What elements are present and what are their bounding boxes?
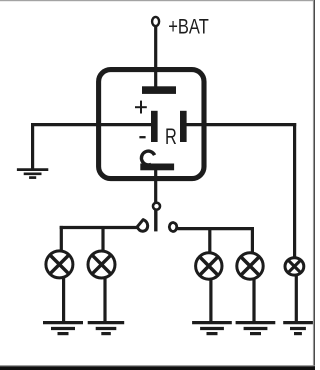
wire +BAT to relay — [154, 26, 157, 90]
capacitor plate left — [151, 111, 158, 142]
terminal plate L (bottom) — [140, 164, 174, 171]
polarity label + — [135, 101, 147, 114]
svg-text:+BAT: +BAT — [168, 15, 209, 39]
wire switch to left lamps — [60, 226, 138, 229]
pilot lamp L5 — [285, 258, 304, 275]
coil arc C — [141, 151, 154, 165]
wire lamp L4 to ground — [252, 279, 255, 322]
wire lamp L5 to ground — [295, 276, 298, 322]
svg-text:R: R — [165, 124, 177, 149]
lamp L4 — [237, 253, 263, 279]
wire stub lamp L3 — [208, 229, 211, 253]
ground (left) — [17, 170, 48, 178]
wire relay right to pilot lamp — [183, 123, 296, 126]
wire stub lamp L4 — [251, 227, 254, 253]
switch pole terminal — [153, 203, 160, 210]
ground G1 — [43, 323, 83, 334]
ground G3 — [192, 323, 232, 334]
wire right drop — [293, 123, 296, 257]
wire left drop — [31, 123, 34, 169]
polarity label - — [139, 136, 145, 138]
wire stub lamp L2 — [101, 228, 104, 252]
ground G2 — [88, 323, 125, 334]
switch pole wire — [154, 210, 157, 232]
terminal plate B (top) — [142, 86, 176, 94]
wire relay left to ground corner — [31, 123, 154, 126]
wire lamp L3 to ground — [209, 279, 212, 322]
ground G5 — [283, 323, 313, 334]
lamp L3 — [196, 253, 222, 279]
switch contact right — [169, 223, 177, 232]
wire lamp L2 to ground — [103, 278, 106, 322]
wire stub lamp L1 — [60, 226, 63, 252]
wire switch to right lamps — [178, 227, 255, 230]
relay box U1 — [99, 70, 204, 179]
wire relay to switch — [154, 167, 157, 204]
wire lamp L1 to ground — [62, 278, 65, 322]
lamp L2 — [88, 251, 115, 278]
battery terminal +BAT — [152, 17, 159, 26]
lamp L1 — [46, 251, 73, 278]
ground G4 — [236, 323, 276, 334]
switch contact left — [137, 220, 148, 232]
capacitor plate right — [180, 111, 187, 142]
